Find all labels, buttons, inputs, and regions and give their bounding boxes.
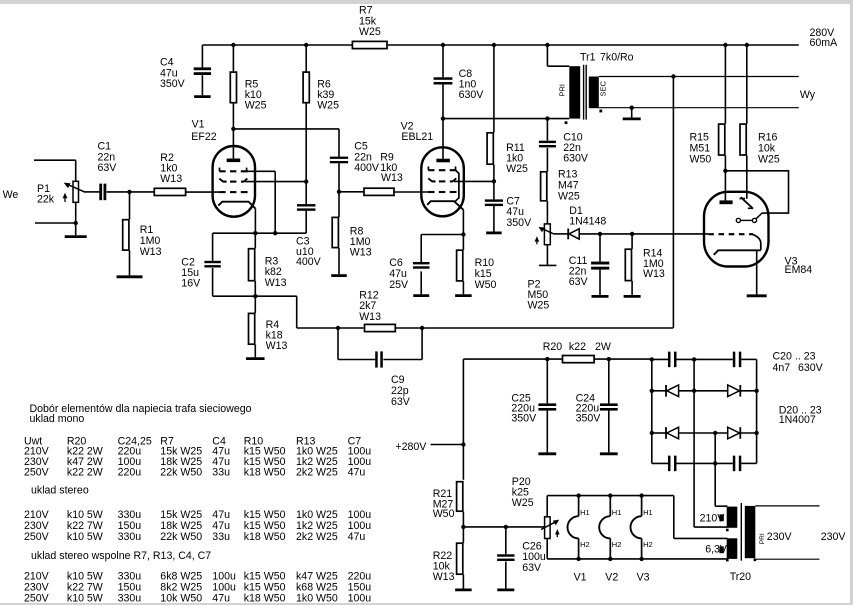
wire V1 cathode bus — [213, 231, 307, 235]
svg-text:630V: 630V — [798, 362, 824, 374]
label D20..23 1N4007 — [779, 405, 822, 426]
svg-text:22k W50: 22k W50 — [160, 467, 202, 479]
svg-text:250V: 250V — [24, 593, 50, 605]
svg-text:400V: 400V — [296, 256, 322, 268]
resistor R8 — [332, 217, 371, 258]
resistor R14 — [625, 247, 665, 280]
capacitor C20 C21 snubbers top — [668, 352, 741, 368]
svg-text:63V: 63V — [522, 562, 542, 574]
wire R8 leads — [338, 192, 340, 274]
svg-text:630V: 630V — [563, 153, 589, 165]
svg-text:47u: 47u — [212, 593, 230, 605]
table common row 250V — [24, 593, 371, 605]
wire C25 leads — [546, 359, 548, 452]
svg-text:W50: W50 — [475, 279, 497, 291]
svg-text:H2: H2 — [612, 540, 622, 549]
capacitor C5 — [330, 141, 380, 174]
wire V2 anode / Tr1 primary bottom — [441, 116, 570, 120]
resistor R16 — [740, 124, 780, 165]
wire feedback to output — [396, 326, 674, 330]
tube V2 EBL21 — [401, 121, 464, 217]
resistor R10 — [457, 250, 497, 291]
svg-text:EM84: EM84 — [785, 264, 813, 276]
svg-text:350V: 350V — [506, 217, 532, 229]
svg-text:k18 W50: k18 W50 — [244, 531, 286, 543]
svg-text:H2: H2 — [643, 540, 653, 549]
svg-text:V1: V1 — [192, 119, 205, 131]
ground under C25 — [538, 452, 556, 455]
capacitor C8 — [434, 68, 485, 101]
table mono row 250V — [24, 467, 365, 479]
svg-text:33u: 33u — [212, 531, 230, 543]
wire supply rail left — [463, 357, 562, 361]
svg-text:400V: 400V — [354, 162, 380, 174]
svg-text:H1: H1 — [580, 508, 590, 517]
wire AC A to 210V winding bottom — [694, 526, 727, 528]
table common row 230V — [24, 582, 371, 594]
svg-text:630V: 630V — [459, 89, 485, 101]
diode D22 — [666, 427, 679, 439]
wire P20 to heater rails — [546, 496, 548, 559]
wire R3 leads — [254, 233, 256, 313]
diode D20 — [666, 385, 679, 397]
svg-text:H1: H1 — [643, 508, 653, 517]
svg-text:350V: 350V — [511, 413, 537, 425]
ground under R1 — [117, 275, 143, 278]
ground under P1 — [65, 235, 87, 238]
svg-text:63V: 63V — [569, 276, 589, 288]
svg-text:330u: 330u — [118, 593, 142, 605]
wire R5 column / V1 anode lead — [232, 45, 234, 158]
capacitor C25 — [511, 393, 556, 425]
wire C2 bottom to R3 bottom — [213, 295, 256, 297]
wire output to feedback — [672, 77, 674, 329]
wire V2 cathode lead — [461, 210, 465, 237]
wire bridge bottom cap row — [652, 462, 757, 464]
wire R6 column — [305, 45, 307, 204]
page margin shading — [0, 0, 853, 4]
table common row 210V — [24, 571, 371, 583]
wire R2 to V1 g1 — [186, 191, 220, 193]
wire R15 column — [724, 45, 726, 201]
wire supply rail right — [595, 357, 652, 361]
resistor R7 — [352, 5, 387, 49]
node 230V mains label — [821, 531, 847, 543]
svg-text:100u: 100u — [348, 593, 372, 605]
svg-text:350V: 350V — [576, 413, 602, 425]
wire bridge diode row 2 — [652, 432, 757, 434]
node bridge left column — [650, 357, 654, 463]
potentiometer P1 — [37, 181, 85, 205]
svg-text:k22 2W: k22 2W — [67, 467, 103, 479]
svg-text:W50: W50 — [690, 154, 712, 166]
svg-text:W13: W13 — [140, 246, 162, 258]
ground under Tr1 secondary — [623, 108, 641, 119]
ground under C6 — [413, 294, 429, 297]
wire C11 leads — [599, 234, 601, 295]
resistor R15 — [690, 124, 725, 165]
node R11/C7/g2 junction — [492, 179, 496, 183]
svg-text:+280V: +280V — [395, 441, 427, 453]
svg-text:47u: 47u — [348, 467, 366, 479]
wire C2 leads — [212, 233, 214, 296]
svg-text:W25: W25 — [558, 191, 580, 203]
svg-text:2W: 2W — [595, 341, 611, 353]
capacitor C2 — [181, 257, 220, 290]
svg-text:EF22: EF22 — [191, 131, 216, 143]
wire R1 leads — [129, 192, 131, 276]
svg-text:6,3V: 6,3V — [705, 544, 728, 556]
svg-text:R20: R20 — [543, 341, 563, 353]
capacitor C22 C23 snubbers bottom — [668, 456, 741, 472]
capacitor C1 — [98, 141, 118, 201]
svg-text:Tr20: Tr20 — [730, 571, 751, 583]
svg-text:uklad stereo wspolne R7, R13,: uklad stereo wspolne R7, R13, C4, C7 — [31, 550, 211, 562]
wire bridge AC column B — [713, 431, 717, 506]
svg-text:33u: 33u — [212, 467, 230, 479]
wire V1 g2 to C3/R6 node — [245, 179, 308, 183]
svg-text:W25: W25 — [317, 100, 339, 112]
potentiometer P2 — [528, 224, 554, 312]
ground under R14 — [624, 295, 641, 298]
svg-text:V1: V1 — [574, 572, 587, 584]
svg-text:W13: W13 — [381, 172, 403, 184]
table mono header row — [24, 435, 361, 447]
heater V2 — [599, 496, 621, 584]
node 280V 60mA label — [810, 27, 839, 49]
wire bias to P20 wiper — [463, 525, 544, 529]
svg-text:EBL21: EBL21 — [401, 131, 433, 143]
wire V1 anode to C5 — [231, 127, 339, 157]
wire C3 bottom lead — [305, 211, 307, 234]
svg-text:250V: 250V — [24, 531, 50, 543]
ground under R22 — [455, 575, 472, 590]
svg-text:4n7: 4n7 — [773, 362, 791, 374]
wire Tr1 secondary top / Wy — [599, 74, 799, 78]
svg-text:60mA: 60mA — [810, 37, 839, 49]
svg-text:22k: 22k — [37, 194, 55, 206]
wire R21 to R22 — [461, 512, 465, 543]
ground under C24 — [600, 452, 618, 455]
resistor R22 — [433, 543, 463, 583]
wire V1 g3 to cathode line — [247, 171, 276, 233]
wire Tr1 secondary bottom — [599, 106, 799, 110]
wire C7 to ground — [493, 206, 495, 232]
resistor R2 — [154, 152, 185, 196]
svg-text:230V: 230V — [821, 531, 847, 543]
svg-text:250V: 250V — [24, 467, 50, 479]
svg-text:uklad mono: uklad mono — [30, 413, 85, 425]
svg-text:47u: 47u — [348, 531, 366, 543]
wire R4 to ground — [254, 345, 256, 358]
svg-text:W13: W13 — [265, 277, 287, 289]
svg-text:C20 .. 23: C20 .. 23 — [773, 351, 816, 363]
wire heater top rail — [547, 493, 674, 497]
svg-text:16V: 16V — [181, 278, 201, 290]
svg-text:We: We — [3, 189, 19, 201]
table mono row 230V — [24, 456, 371, 468]
wire R11 column — [493, 45, 495, 199]
ground under R8 — [331, 274, 347, 277]
wire R21 column — [462, 359, 464, 480]
wire heater bottom rail — [547, 557, 727, 561]
transformer Tr1 7k0/Ro — [558, 52, 634, 125]
svg-text:330u: 330u — [118, 531, 142, 543]
svg-text:k22: k22 — [569, 341, 586, 353]
svg-text:k10 5W: k10 5W — [67, 531, 103, 543]
svg-text:10k W50: 10k W50 — [160, 593, 202, 605]
svg-text:k10 5W: k10 5W — [67, 593, 103, 605]
wire C4 leads — [201, 45, 203, 95]
ground under P2 — [539, 245, 556, 266]
resistor R9 — [364, 151, 403, 195]
diode D1 1N4148 — [568, 205, 606, 239]
svg-text:Wy: Wy — [800, 89, 816, 101]
table stereo heading — [31, 485, 89, 497]
svg-text:W25: W25 — [512, 497, 534, 509]
table headings — [30, 403, 252, 425]
resistor R12 — [359, 289, 395, 331]
wire D1 to V3 grid — [579, 232, 708, 236]
wire R10 leads — [462, 235, 464, 295]
resistor R5 — [230, 72, 266, 112]
svg-text:H2: H2 — [580, 540, 590, 549]
capacitor C6 — [389, 257, 429, 291]
svg-text:63V: 63V — [391, 396, 411, 408]
wire R16 column — [746, 45, 748, 199]
capacitor C24 — [576, 393, 618, 425]
ground under R10 — [455, 294, 472, 297]
wire C5 to R9/R8 node — [337, 163, 341, 194]
svg-text:PRI: PRI — [558, 84, 567, 97]
tube V1 EF22 — [191, 119, 255, 217]
wire P1 wiper to C1 — [84, 191, 99, 193]
svg-text:W13: W13 — [433, 571, 455, 583]
svg-text:1k0 W50: 1k0 W50 — [296, 593, 338, 605]
diode D21 — [728, 385, 741, 397]
svg-text:W50: W50 — [433, 508, 455, 520]
svg-text:W13: W13 — [643, 268, 665, 280]
wire R9 to V2 g1 — [394, 191, 428, 193]
table stereo row 250V — [24, 531, 365, 543]
ground under C11 — [592, 295, 609, 298]
svg-text:W25: W25 — [528, 300, 550, 312]
diode D23 — [728, 427, 741, 439]
node R15/loop junction — [723, 169, 727, 173]
ground under C4 — [194, 95, 211, 98]
wire bridge top cap row — [652, 358, 757, 360]
wire C6 to ground — [420, 271, 422, 294]
svg-text:1N4148: 1N4148 — [569, 215, 606, 227]
svg-text:W13: W13 — [160, 173, 182, 185]
svg-text:k18 W50: k18 W50 — [244, 593, 286, 605]
wire V3 cathode to ground — [756, 250, 758, 294]
svg-text:350V: 350V — [160, 78, 186, 90]
wire AC B to 210V winding top — [715, 505, 727, 507]
svg-text:25V: 25V — [389, 279, 409, 291]
resistor R11 — [487, 133, 528, 175]
wire feedback from cathode — [255, 296, 364, 330]
wire input top stub — [34, 160, 76, 181]
label C20..23 4n7 630V — [773, 351, 824, 375]
ground under V3 — [747, 294, 767, 297]
svg-text:7k0/Ro: 7k0/Ro — [600, 52, 634, 64]
capacitor C9 — [375, 351, 411, 408]
ground under C7 — [486, 231, 502, 234]
tube V3 EM84 — [704, 192, 812, 276]
resistor R6 — [303, 72, 339, 112]
capacitor C26 — [497, 540, 546, 573]
node We input label — [3, 189, 19, 201]
svg-text:W25: W25 — [245, 100, 267, 112]
resistor R13 — [541, 169, 580, 203]
resistor R21 — [433, 482, 463, 520]
svg-text:W25: W25 — [359, 26, 381, 38]
wire 230V primary top — [755, 505, 819, 507]
wire bridge right column — [754, 359, 758, 463]
wire bridge diode row 1 — [652, 390, 757, 392]
svg-text:SEC: SEC — [599, 80, 608, 96]
svg-text:1N4007: 1N4007 — [779, 414, 816, 426]
wire 230V primary bottom — [755, 558, 819, 560]
wire heater rail to 6.3V winding — [674, 496, 728, 539]
wire input bottom stub — [35, 202, 78, 235]
wire V1 cathode lead — [254, 209, 256, 234]
wire R14 leads — [631, 234, 633, 295]
heater V1 — [568, 496, 590, 584]
svg-text:2k2 W25: 2k2 W25 — [296, 531, 338, 543]
table stereo common heading — [31, 550, 211, 562]
wire V2 cathode to C6 — [421, 235, 463, 263]
wire C8 leads — [442, 45, 444, 119]
svg-text:W25: W25 — [758, 154, 780, 166]
svg-text:PRI: PRI — [759, 533, 766, 544]
svg-text:2k2 W25: 2k2 W25 — [296, 467, 338, 479]
svg-text:V2: V2 — [605, 572, 618, 584]
svg-text:230V: 230V — [767, 531, 793, 543]
ground under C26 — [497, 589, 514, 592]
wire R13 to P2 — [546, 201, 548, 224]
resistor R1 — [123, 220, 162, 258]
wire C24 leads — [608, 359, 610, 452]
svg-text:H1: H1 — [612, 508, 622, 517]
capacitor C4 — [160, 57, 211, 91]
node +280V label — [395, 441, 427, 453]
wire to R9 — [339, 191, 364, 193]
capacitor C10 — [539, 132, 589, 165]
table mono row 210V — [24, 446, 371, 458]
capacitor C3 — [296, 204, 322, 268]
wire C1 to R2 — [107, 190, 154, 194]
svg-text:63V: 63V — [98, 162, 118, 174]
svg-text:W13: W13 — [350, 247, 372, 259]
wire C9 loop — [338, 328, 422, 360]
svg-text:k18 W50: k18 W50 — [244, 467, 286, 479]
svg-text:uklad stereo: uklad stereo — [31, 485, 89, 497]
wire C26 leads — [505, 527, 507, 589]
wire V2 g2 to R11/C7 — [454, 180, 494, 182]
wire C10 leads — [546, 119, 548, 172]
wire V3 anode loop — [725, 171, 788, 213]
svg-text:Tr1: Tr1 — [580, 52, 596, 64]
resistor R4 — [249, 313, 288, 352]
node B+ rail junctions — [231, 43, 749, 47]
svg-text:220u: 220u — [118, 467, 142, 479]
svg-text:W13: W13 — [266, 340, 288, 352]
svg-text:W25: W25 — [506, 163, 528, 175]
wire Tr1 primary top — [547, 45, 569, 66]
svg-text:V3: V3 — [637, 572, 650, 584]
ground under R4 — [246, 357, 264, 360]
node R3/R4 junction — [253, 294, 257, 298]
table stereo row 230V — [24, 520, 371, 532]
transformer Tr20 — [700, 503, 793, 583]
svg-text:22k W50: 22k W50 — [160, 531, 202, 543]
capacitor C7 — [485, 196, 532, 229]
table stereo row 210V — [24, 509, 371, 521]
svg-text:210V: 210V — [700, 513, 726, 525]
capacitor C11 — [569, 255, 610, 288]
node Wy label — [800, 89, 816, 101]
heater V3 — [631, 496, 653, 584]
resistor R20 — [543, 341, 611, 363]
wire +280V feed — [431, 442, 466, 446]
wire P2 wiper to D1 — [554, 233, 569, 235]
resistor R3 — [249, 249, 287, 289]
wire bridge AC column A — [692, 357, 696, 527]
wire B+ rail 280V — [202, 44, 798, 46]
svg-text:W13: W13 — [359, 311, 381, 323]
wire V2 anode lead — [442, 119, 444, 159]
potentiometer P20 — [512, 476, 560, 539]
